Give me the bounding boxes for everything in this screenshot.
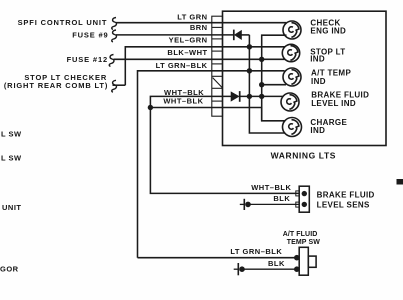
wire riser YEL-GRN vertical (crosses BLK-WHT, no junction) xyxy=(125,47,284,85)
junction V1-LT GRN-BLK xyxy=(247,68,252,73)
connector squiggle for FUSE #12 xyxy=(109,55,114,67)
svg-text:LT GRN–BLK: LT GRN–BLK xyxy=(230,247,282,256)
wire LT GRN-BLK to A/T switch xyxy=(138,257,297,259)
wire BLK from ground to A/T switch xyxy=(242,268,297,270)
svg-text:BLK: BLK xyxy=(268,259,285,268)
svg-text:IND: IND xyxy=(310,55,325,64)
wire BRN (fuse #9 to diode D1) xyxy=(116,34,234,36)
junction V1-YEL-GRN xyxy=(247,44,252,49)
wire BLK from ground to brake connector xyxy=(248,203,299,205)
svg-text:LT GRN–BLK: LT GRN–BLK xyxy=(156,61,208,70)
svg-text:BRAKE FLUID: BRAKE FLUID xyxy=(317,191,375,200)
wire D2 to BRAKE FLUID lamp xyxy=(240,95,283,97)
bus V2 vertical xyxy=(262,35,287,121)
connector squiggle for FUSE #9 xyxy=(112,30,117,42)
diode D2 xyxy=(231,91,240,102)
connector squiggle for STOP LT CHECKER xyxy=(112,80,117,92)
junction V1-D2 row xyxy=(247,94,252,99)
svg-text:YEL–GRN: YEL–GRN xyxy=(169,35,208,44)
wire from D1 to node V1 xyxy=(242,34,250,36)
ground G1 (brake fluid sensor BLK) xyxy=(240,199,251,210)
svg-text:BLK: BLK xyxy=(273,194,290,203)
lamp BRAKE FLUID LEVEL IND xyxy=(281,93,299,111)
junction V2 lamp3 lower xyxy=(259,82,264,87)
svg-text:UNIT: UNIT xyxy=(2,203,22,212)
junction dot WHT-BLK tee xyxy=(148,105,153,110)
svg-text:BLK–WHT: BLK–WHT xyxy=(167,48,207,57)
svg-text:GOR: GOR xyxy=(0,265,19,274)
svg-text:LEVEL IND: LEVEL IND xyxy=(311,99,356,108)
wire LT GRN-BLK horizontal (to A/T TEMP IND lamp upper) xyxy=(138,71,285,258)
connector squiggle for SPFI CONTROL UNIT xyxy=(112,18,117,30)
junction V2-D2 row xyxy=(259,94,264,99)
junction V2-BLK-WHT xyxy=(259,57,264,62)
connector BRAKE FLUID LEVEL SENS xyxy=(296,186,310,212)
svg-text:(RIGHT REAR COMB LT): (RIGHT REAR COMB LT) xyxy=(4,81,108,90)
wire WHT-BLK lower (to CHARGE IND lamp) xyxy=(150,108,285,121)
svg-text:LT GRN: LT GRN xyxy=(177,13,207,22)
bus V1 vertical xyxy=(249,35,285,133)
svg-text:SPFI CONTROL UNIT: SPFI CONTROL UNIT xyxy=(18,18,108,27)
wire V2 to A/T TEMP lamp lower xyxy=(262,84,286,86)
lamp STOP LT IND xyxy=(282,44,299,61)
lamp CHECK ENG IND xyxy=(283,21,301,39)
svg-text:WHT–BLK: WHT–BLK xyxy=(251,183,291,192)
lamp A/T TEMP IND xyxy=(283,68,301,86)
wire from stop lt checker to riser xyxy=(113,84,126,86)
warning lights box U1 xyxy=(223,11,387,160)
wire LT GRN (SPFI to CHECK ENG IND lamp) xyxy=(116,22,286,24)
svg-text:L SW: L SW xyxy=(1,129,22,138)
svg-text:IND: IND xyxy=(311,77,326,86)
svg-text:WARNING LTS: WARNING LTS xyxy=(271,151,336,161)
wire BLK-WHT (fuse #12 to STOP LT IND lamp lower) xyxy=(114,58,286,60)
svg-text:TEMP SW: TEMP SW xyxy=(287,239,321,246)
wire WHT-BLK upper (to diode D2 and BRAKE FLUID lamp) xyxy=(150,96,299,193)
page mark square xyxy=(397,179,403,185)
diode D1 xyxy=(234,30,242,41)
svg-text:FUSE #9: FUSE #9 xyxy=(72,31,108,40)
svg-text:L SW: L SW xyxy=(1,153,22,162)
svg-text:FUSE #12: FUSE #12 xyxy=(67,55,108,64)
crossed-out empty connector cell xyxy=(213,78,223,88)
svg-text:BRAKE FLUID: BRAKE FLUID xyxy=(311,90,369,99)
svg-text:IND: IND xyxy=(310,126,325,135)
svg-text:ENG IND: ENG IND xyxy=(310,26,346,35)
svg-text:A/T FLUID: A/T FLUID xyxy=(283,231,318,238)
lamp CHARGE IND xyxy=(283,118,302,137)
svg-text:BRN: BRN xyxy=(190,23,208,32)
switch A/T FLUID TEMP SW body xyxy=(294,247,316,275)
svg-text:LEVEL SENS: LEVEL SENS xyxy=(317,200,370,209)
connector column on left edge of warning box xyxy=(212,16,223,116)
ground G2 (A/T switch BLK) xyxy=(234,263,245,275)
svg-text:WHT–BLK: WHT–BLK xyxy=(163,96,203,105)
